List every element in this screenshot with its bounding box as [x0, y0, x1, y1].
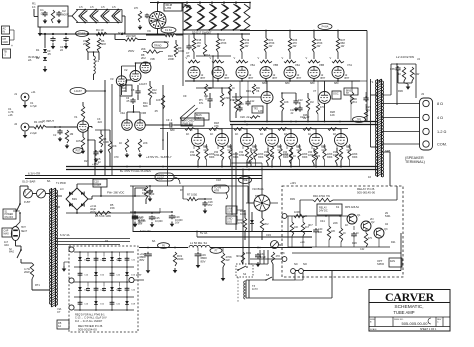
svg-text:450V: 450V	[90, 210, 96, 214]
svg-text:330K: 330K	[327, 157, 333, 159]
svg-text:BH7: BH7	[201, 77, 206, 80]
svg-text:8 Ω: 8 Ω	[437, 102, 443, 106]
svg-text:6.3V 4A: 6.3V 4A	[60, 233, 70, 237]
svg-text:2A: 2A	[28, 58, 32, 62]
svg-text:ON-OFF: ON-OFF	[5, 217, 14, 219]
svg-text:10W: 10W	[414, 72, 420, 76]
svg-text:330K: 330K	[283, 157, 289, 159]
svg-text:Q1: Q1	[357, 213, 361, 217]
svg-text:1K: 1K	[186, 132, 189, 136]
svg-text:8A: 8A	[152, 239, 155, 243]
svg-text:1-2 Ω: 1-2 Ω	[437, 130, 447, 134]
svg-text:117V: 117V	[252, 287, 258, 291]
svg-text:22K: 22K	[333, 221, 338, 225]
svg-text:V6A: V6A	[295, 63, 300, 67]
svg-text:F4 8A: F4 8A	[322, 25, 329, 29]
svg-text:1K: 1K	[260, 132, 263, 136]
svg-text:C11: C11	[204, 95, 209, 98]
svg-text:1K: 1K	[210, 132, 213, 136]
svg-text:J2: J2	[14, 122, 17, 126]
svg-text:C20 .22: C20 .22	[240, 115, 250, 119]
svg-text:04: 04	[385, 222, 388, 226]
svg-text:C2: C2	[53, 133, 57, 137]
svg-text:330K: 330K	[209, 157, 215, 159]
svg-text:.05: .05	[47, 52, 51, 56]
svg-text:TP1: TP1	[357, 118, 362, 122]
svg-text:1K5: 1K5	[76, 139, 81, 143]
svg-text:R19: R19	[246, 89, 251, 93]
svg-text:22: 22	[60, 48, 63, 52]
svg-text:V15: V15	[296, 144, 301, 148]
svg-text:22K: 22K	[331, 231, 336, 233]
svg-text:47K: 47K	[214, 124, 219, 128]
svg-text:35V: 35V	[208, 204, 213, 207]
svg-text:16V: 16V	[175, 222, 180, 225]
svg-text:V1: V1	[74, 115, 78, 119]
svg-text:R33: R33	[246, 251, 251, 255]
svg-text:12AX7: 12AX7	[74, 89, 82, 93]
svg-text:C21: C21	[290, 110, 295, 112]
svg-text:CARVER: CARVER	[385, 290, 435, 304]
svg-text:INV.: INV.	[199, 102, 204, 105]
svg-text:BH7: BH7	[345, 77, 350, 80]
svg-text:POT: POT	[76, 151, 81, 153]
svg-text:IN: IN	[3, 30, 6, 33]
svg-text:SCALE: SCALE	[370, 328, 377, 331]
svg-text:100K: 100K	[103, 140, 109, 144]
svg-text:2W: 2W	[317, 44, 321, 48]
svg-text:220K: 220K	[352, 154, 358, 156]
svg-text:D1: D1	[36, 48, 40, 52]
svg-text:RT1: RT1	[35, 283, 40, 287]
svg-text:LUG: LUG	[227, 220, 232, 223]
svg-text:250V: 250V	[128, 49, 134, 53]
svg-text:TERMINAL): TERMINAL)	[405, 160, 425, 164]
svg-text:1W: 1W	[197, 44, 201, 48]
svg-text:5401: 5401	[385, 215, 391, 218]
svg-text:V14: V14	[277, 144, 282, 148]
svg-text:6.3 V. 5A: 6.3 V. 5A	[140, 229, 151, 233]
svg-text:V3: V3	[110, 77, 114, 81]
svg-text:+470V PL. SUPPLY: +470V PL. SUPPLY	[146, 155, 172, 159]
svg-text:1K: 1K	[308, 132, 311, 136]
svg-text:GND: GND	[3, 41, 9, 44]
svg-text:.022: .022	[97, 120, 103, 124]
svg-text:12AX7: 12AX7	[139, 82, 148, 86]
svg-text:OSC: OSC	[333, 92, 339, 96]
svg-text:330K: 330K	[258, 157, 264, 159]
svg-text:1K: 1K	[253, 155, 256, 158]
svg-text:2K2: 2K2	[264, 222, 269, 226]
svg-text:R4 10: R4 10	[96, 28, 104, 32]
svg-text:C33: C33	[266, 233, 271, 237]
svg-text:1K: 1K	[235, 132, 238, 136]
svg-text:NC: NC	[294, 262, 298, 266]
svg-text:12K: 12K	[330, 113, 335, 117]
svg-text:V7A: V7A	[347, 63, 352, 67]
svg-text:47K: 47K	[320, 107, 325, 109]
svg-text:470K: 470K	[221, 41, 227, 45]
svg-text:V7: V7	[313, 89, 317, 93]
svg-text:V6B: V6B	[319, 63, 324, 67]
svg-text:1K: 1K	[284, 132, 287, 136]
svg-text:330K: 330K	[352, 157, 358, 159]
svg-text:NEUT: NEUT	[21, 231, 28, 233]
svg-text:M1: M1	[279, 243, 283, 247]
svg-text:4.5: 4.5	[79, 5, 83, 9]
svg-text:L2 24V/2.5W: L2 24V/2.5W	[396, 55, 414, 59]
svg-text:22K: 22K	[143, 141, 148, 145]
svg-text:680: 680	[285, 81, 290, 85]
svg-text:680: 680	[262, 81, 267, 85]
svg-text:F5: F5	[105, 239, 109, 243]
svg-text:12K: 12K	[258, 109, 263, 113]
svg-text:FAN: FAN	[390, 259, 395, 263]
svg-text:25V: 25V	[138, 222, 143, 225]
svg-text:15K: 15K	[110, 206, 115, 210]
svg-text:47K: 47K	[238, 221, 243, 225]
svg-text:J1: J1	[14, 92, 17, 96]
svg-text:Q3: Q3	[384, 227, 388, 231]
svg-text:4K7: 4K7	[308, 223, 313, 227]
svg-text:1K: 1K	[343, 233, 346, 235]
svg-text:LO: LO	[60, 187, 64, 191]
svg-text:220K: 220K	[177, 257, 184, 261]
svg-text:FU5T: FU5T	[24, 200, 31, 204]
svg-text:V16: V16	[321, 144, 326, 148]
svg-text:+24: +24	[300, 240, 305, 244]
svg-text:+24V: +24V	[290, 181, 296, 185]
svg-text:PAIR 6L6: PAIR 6L6	[183, 122, 194, 125]
svg-text:V5B: V5B	[273, 63, 278, 67]
svg-text:K1: K1	[336, 205, 340, 209]
svg-text:HTR: HTR	[166, 6, 172, 10]
svg-text:10,000: 10,000	[155, 220, 163, 223]
svg-text:BH7: BH7	[225, 77, 230, 80]
svg-text:1K: 1K	[293, 155, 296, 158]
svg-text:1M: 1M	[70, 132, 74, 136]
svg-text:10W: 10W	[239, 154, 245, 157]
svg-text:+: +	[11, 44, 13, 48]
svg-text:V2: V2	[124, 68, 128, 72]
svg-text:TP2: TP2	[255, 194, 260, 198]
svg-text:4.5: 4.5	[101, 5, 105, 9]
svg-text:WHT: WHT	[136, 274, 142, 277]
svg-text:V: V	[258, 56, 260, 60]
svg-text:R40 470Ω 7W: R40 470Ω 7W	[313, 194, 330, 198]
svg-text:C18: C18	[216, 178, 221, 182]
svg-text:F1 3A: F1 3A	[165, 28, 172, 32]
svg-text:2N: 2N	[370, 217, 373, 221]
svg-text:V: V	[306, 56, 308, 60]
svg-text:TUBE AMP: TUBE AMP	[393, 310, 414, 315]
svg-text:NOTE 3: NOTE 3	[150, 19, 160, 23]
svg-text:330K: 330K	[302, 157, 308, 159]
svg-text:VAC: VAC	[4, 243, 9, 247]
svg-text:HTR: HTR	[214, 189, 219, 192]
svg-text:.22: .22	[97, 160, 101, 164]
svg-text:820: 820	[270, 155, 275, 158]
svg-text:+46: +46	[8, 113, 13, 117]
svg-text:B+ 470V TO ALL PLATES: B+ 470V TO ALL PLATES	[120, 169, 151, 173]
svg-text:20K: 20K	[141, 47, 146, 51]
svg-text:6K8: 6K8	[101, 42, 106, 46]
svg-text:MAG: MAG	[9, 251, 14, 254]
svg-text:100K: 100K	[294, 210, 300, 214]
svg-text:505-00154-00: 505-00154-00	[78, 328, 97, 332]
svg-text:ADJ: ADJ	[196, 117, 201, 120]
svg-text:2W: 2W	[269, 44, 273, 48]
svg-text:4K7: 4K7	[305, 227, 310, 229]
svg-text:1W: 1W	[230, 98, 234, 102]
svg-text:10W: 10W	[214, 154, 220, 157]
svg-text:1K: 1K	[333, 132, 336, 136]
svg-text:C9: C9	[183, 94, 187, 98]
svg-text:MAG: MAG	[4, 232, 10, 235]
svg-text:2W: 2W	[83, 42, 87, 46]
svg-text:C9 .1: C9 .1	[166, 118, 173, 122]
svg-text:82K: 82K	[152, 91, 157, 95]
svg-text:MPS A06-5A: MPS A06-5A	[345, 206, 359, 209]
svg-text:2.2µF: 2.2µF	[30, 131, 37, 135]
svg-text:10K: 10K	[122, 89, 127, 93]
svg-text:C8: C8	[131, 88, 135, 92]
svg-text:100K: 100K	[240, 212, 246, 216]
svg-text:220 5W: 220 5W	[126, 34, 136, 38]
svg-text:V4B: V4B	[141, 111, 146, 115]
svg-text:1K: 1K	[345, 223, 348, 227]
svg-text:V9: V9	[147, 29, 151, 33]
svg-text:R39: R39	[290, 197, 295, 201]
svg-text:C21 .22: C21 .22	[300, 115, 310, 119]
svg-text:100: 100	[318, 232, 323, 234]
svg-text:V: V	[330, 56, 332, 60]
svg-text:20W: 20W	[24, 270, 30, 274]
svg-text:.05: .05	[154, 109, 158, 113]
svg-text:COM.: COM.	[437, 143, 447, 147]
svg-text:470: 470	[368, 238, 373, 240]
svg-text:27K: 27K	[134, 8, 139, 10]
svg-text:820: 820	[316, 155, 321, 158]
svg-text:SPKR: SPKR	[377, 262, 384, 266]
svg-text:RECT: RECT	[157, 177, 164, 180]
svg-text:10W: 10W	[283, 154, 289, 157]
svg-text:16: 16	[368, 175, 371, 179]
svg-text:L3: L3	[96, 59, 99, 63]
svg-text:10W: 10W	[190, 154, 196, 157]
svg-text:470: 470	[114, 155, 119, 159]
svg-text:T1 PWR: T1 PWR	[56, 181, 66, 185]
svg-text:V4A: V4A	[120, 111, 125, 115]
svg-text:6.3V HTR: 6.3V HTR	[28, 172, 40, 176]
svg-text:505-005.00-00: 505-005.00-00	[401, 321, 428, 326]
svg-text:47µF: 47µF	[142, 192, 148, 195]
svg-text:22K: 22K	[112, 144, 117, 148]
svg-text:TRIAD: TRIAD	[154, 45, 162, 48]
svg-text:.01: .01	[40, 11, 44, 15]
svg-text:V6: V6	[256, 89, 260, 93]
svg-text:GLO- BAR: GLO- BAR	[22, 180, 35, 184]
svg-text:V2B: V2B	[150, 58, 155, 61]
svg-text:2W: 2W	[293, 44, 297, 48]
svg-text:3K3: 3K3	[236, 254, 241, 258]
svg-text:680: 680	[310, 81, 315, 85]
svg-text:BR1: BR1	[72, 197, 78, 201]
svg-text:100K: 100K	[178, 49, 184, 53]
svg-text:R5 5.6K 10W: R5 5.6K 10W	[95, 214, 111, 218]
svg-text:HOT: HOT	[21, 227, 26, 229]
svg-text:CAP: CAP	[4, 230, 9, 233]
svg-text:505-00145-00: 505-00145-00	[357, 191, 375, 195]
svg-text:.05: .05	[186, 54, 190, 58]
svg-text:6CA4: 6CA4	[118, 31, 125, 35]
svg-text:V13: V13	[252, 144, 257, 148]
svg-text:C12: C12	[250, 101, 255, 103]
svg-text:1K: 1K	[232, 88, 235, 90]
svg-text:V11: V11	[203, 144, 208, 148]
svg-text:600V: 600V	[62, 12, 69, 16]
svg-text:FW+ 280 VDC: FW+ 280 VDC	[107, 191, 124, 195]
svg-text:1M: 1M	[310, 100, 314, 104]
svg-text:4.5: 4.5	[112, 5, 116, 9]
svg-text:J3: J3	[421, 92, 424, 96]
svg-text:D20: D20	[352, 241, 357, 245]
svg-text:BH7: BH7	[297, 77, 302, 80]
svg-text:OUT: OUT	[227, 210, 233, 213]
svg-text:10K: 10K	[284, 100, 289, 104]
svg-text:82K: 82K	[143, 104, 148, 108]
svg-text:R2: R2	[84, 159, 88, 163]
svg-text:V5A: V5A	[250, 63, 255, 67]
svg-text:BIAS: BIAS	[346, 90, 352, 93]
svg-text:1K: 1K	[339, 155, 342, 158]
svg-text:2W: 2W	[226, 258, 230, 262]
svg-text:680: 680	[170, 128, 175, 132]
svg-text:R36: R36	[398, 89, 403, 93]
svg-text:5V 3A: 5V 3A	[200, 231, 207, 235]
svg-text:BH7: BH7	[249, 77, 254, 80]
svg-text:1W: 1W	[341, 44, 345, 48]
svg-text:8A: 8A	[47, 179, 50, 183]
svg-text:C41: C41	[320, 219, 325, 223]
svg-text:47K: 47K	[280, 251, 285, 255]
svg-text:1K: 1K	[119, 141, 122, 145]
svg-text:NO: NO	[303, 262, 307, 266]
svg-text:R7: R7	[180, 188, 184, 192]
svg-text:(2) INPUT: (2) INPUT	[42, 119, 54, 123]
svg-text:4.7µF: 4.7µF	[30, 104, 37, 108]
svg-text:1A: 1A	[58, 324, 61, 328]
svg-text:V: V	[282, 56, 284, 60]
svg-text:C7: C7	[57, 310, 61, 314]
svg-text:R7 100Ω: R7 100Ω	[187, 193, 197, 197]
svg-text:2W: 2W	[245, 44, 249, 48]
svg-text:NFB: NFB	[385, 149, 391, 153]
svg-text:L1 56 MH. 5A: L1 56 MH. 5A	[190, 241, 207, 245]
svg-text:+41: +41	[31, 90, 36, 94]
svg-text:10K: 10K	[294, 227, 299, 229]
svg-text:80V: 80V	[201, 259, 206, 263]
svg-text:C40: C40	[318, 229, 323, 231]
svg-text:V12: V12	[227, 144, 232, 148]
svg-text:V17: V17	[346, 144, 351, 148]
svg-text:D21: D21	[391, 241, 396, 244]
svg-text:BH7: BH7	[321, 77, 326, 80]
svg-text:D3-D17 1N4007: D3-D17 1N4007	[192, 31, 212, 35]
svg-text:R14: R14	[205, 53, 210, 57]
svg-text:D-6 → D-17 ALL 1N4007: D-6 → D-17 ALL 1N4007	[75, 320, 103, 323]
svg-text:330K: 330K	[238, 103, 244, 106]
svg-text:SHEET 1 OF 1: SHEET 1 OF 1	[420, 328, 437, 331]
svg-text:10K: 10K	[156, 98, 161, 102]
svg-text:220K: 220K	[168, 57, 174, 61]
svg-text:1K: 1K	[32, 5, 36, 9]
svg-text:680: 680	[334, 81, 339, 85]
svg-text:F2 5A: F2 5A	[78, 32, 85, 36]
svg-text:10µF: 10µF	[260, 255, 266, 259]
svg-text:80V: 80V	[140, 258, 145, 262]
svg-text:C42: C42	[360, 249, 365, 251]
svg-text:4 Ω: 4 Ω	[437, 116, 443, 120]
svg-text:4.5: 4.5	[90, 5, 94, 9]
svg-text:100µF: 100µF	[94, 182, 102, 186]
svg-text:V: V	[234, 56, 236, 60]
svg-text:BH7: BH7	[273, 77, 278, 80]
svg-text:2K4: 2K4	[352, 100, 357, 104]
svg-text:2K2: 2K2	[141, 56, 146, 60]
svg-text:24V DC: 24V DC	[319, 209, 328, 212]
